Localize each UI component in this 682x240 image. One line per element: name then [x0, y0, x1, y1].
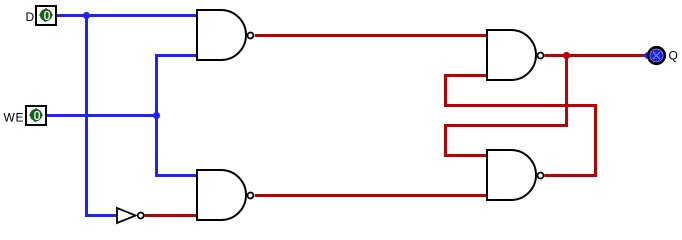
- svg-text:Q: Q: [669, 49, 678, 63]
- svg-text:D: D: [26, 10, 35, 24]
- svg-text:WE: WE: [4, 111, 25, 125]
